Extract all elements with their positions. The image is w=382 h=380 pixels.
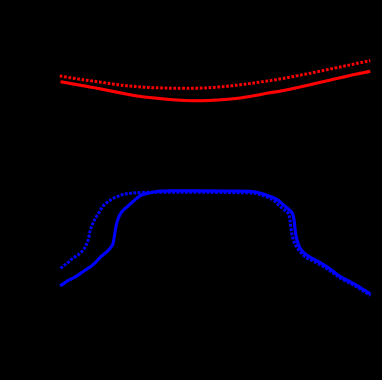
red solid curve	[61, 71, 371, 100]
blue solid curve	[60, 191, 370, 294]
blue dashed curve	[61, 192, 371, 295]
red dashed curve (upper)	[60, 61, 371, 89]
